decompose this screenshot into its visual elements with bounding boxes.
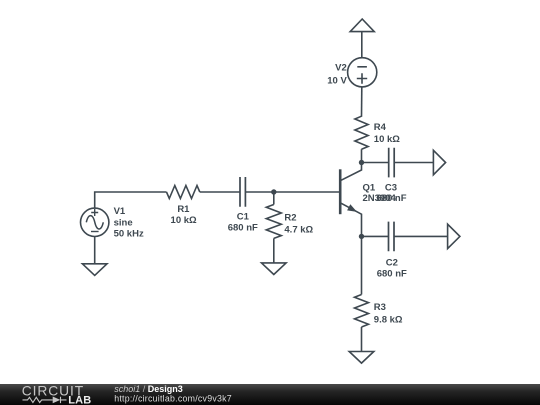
- V2 label: [327, 62, 347, 86]
- wire V1 top to R1: [95, 192, 167, 208]
- wire R3 to ground: [361, 327, 363, 352]
- CircuitLab logo wordmark: [22, 383, 92, 405]
- transistor Q1: [340, 163, 361, 237]
- svg-text:LAB: LAB: [68, 395, 91, 405]
- resistor R2: [266, 192, 281, 263]
- R3 label: [374, 302, 403, 326]
- output flag 1: [433, 150, 445, 175]
- footer title text: [114, 384, 232, 404]
- VCC arrow (power): [350, 19, 374, 32]
- wire R4 to node B: [361, 149, 363, 162]
- R2 label: [284, 212, 313, 235]
- svg-text:10 kΩ: 10 kΩ: [374, 134, 400, 145]
- wire C3 to output flag 1: [394, 162, 433, 164]
- wire R1 to C1: [200, 191, 240, 193]
- node B junction dot: [359, 160, 364, 165]
- wire V2 to R4: [361, 87, 363, 117]
- svg-text:10 kΩ: 10 kΩ: [171, 215, 197, 226]
- Q1 label: [363, 182, 397, 204]
- svg-text:R3: R3: [374, 302, 386, 313]
- voltage source V1: [81, 208, 109, 236]
- C3 label: [376, 182, 406, 204]
- wire V1 bottom to ground: [94, 237, 96, 264]
- svg-text:Q1: Q1: [363, 182, 376, 193]
- ground under R3: [349, 352, 374, 364]
- svg-text:680 nF: 680 nF: [377, 269, 407, 280]
- wire VCC to V2: [361, 32, 363, 58]
- svg-text:C2: C2: [386, 258, 398, 269]
- voltage source V2: [348, 58, 377, 87]
- wire node A to Q1 base: [274, 191, 340, 193]
- svg-text:sine: sine: [114, 217, 133, 228]
- R1 label: [171, 204, 197, 226]
- svg-text:R2: R2: [284, 212, 296, 223]
- svg-text:680 nF: 680 nF: [228, 223, 258, 234]
- ground under R2: [262, 263, 287, 275]
- footer bar: [0, 384, 540, 405]
- R4 label: [374, 122, 400, 145]
- svg-text:2N3904: 2N3904: [363, 193, 397, 204]
- svg-text:schoi1 / Design3: schoi1 / Design3: [114, 384, 183, 394]
- wire node B to C3: [362, 162, 389, 164]
- svg-text:10 V: 10 V: [327, 76, 347, 87]
- svg-text:V2: V2: [335, 62, 347, 73]
- resistor R1: [167, 186, 200, 199]
- wire node C to R3: [361, 236, 363, 294]
- C2 label: [377, 258, 407, 280]
- svg-text:4.7 kΩ: 4.7 kΩ: [284, 225, 313, 236]
- svg-text:C3: C3: [385, 182, 397, 193]
- capacitor C3: [389, 148, 395, 178]
- logo resistor-diode glyph: [23, 397, 67, 403]
- svg-text:50 kHz: 50 kHz: [114, 229, 144, 240]
- node A junction dot: [271, 189, 276, 194]
- capacitor C2: [389, 222, 395, 252]
- wire C2 to output flag 2: [394, 235, 448, 237]
- svg-text:R4: R4: [374, 122, 387, 133]
- output flag 2: [448, 224, 460, 248]
- svg-text:V1: V1: [114, 206, 126, 217]
- svg-text:http://circuitlab.com/cv9v3k7: http://circuitlab.com/cv9v3k7: [114, 393, 232, 403]
- ground under V1: [82, 264, 107, 276]
- svg-text:C1: C1: [237, 211, 250, 222]
- wire C1 to node A: [245, 191, 273, 193]
- capacitor C1: [240, 177, 245, 207]
- wire node C to C2: [362, 235, 389, 237]
- resistor R3: [355, 295, 369, 328]
- V1 label: [114, 206, 144, 239]
- svg-text:R1: R1: [177, 204, 190, 215]
- node C junction dot: [359, 234, 364, 239]
- resistor R4: [355, 116, 368, 149]
- svg-text:9.8 kΩ: 9.8 kΩ: [374, 315, 403, 326]
- C1 label: [228, 211, 258, 233]
